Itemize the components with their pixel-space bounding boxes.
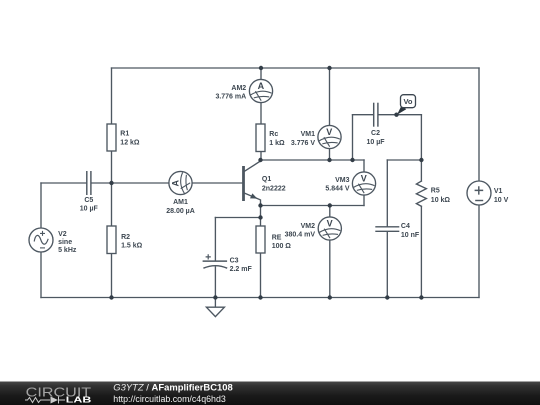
svg-text:C2: C2 [371,130,380,137]
svg-text:5 kHz: 5 kHz [58,247,77,254]
svg-text:1 kΩ: 1 kΩ [269,140,285,147]
svg-text:C5: C5 [84,197,93,204]
svg-text:R5: R5 [431,188,440,195]
svg-text:380.4 mV: 380.4 mV [285,231,316,238]
svg-text:sine: sine [58,239,72,246]
svg-text:R1: R1 [120,131,129,138]
svg-text:2n2222: 2n2222 [262,186,286,193]
svg-text:V: V [326,127,332,137]
svg-text:RE: RE [272,234,282,241]
svg-text:Vo: Vo [403,97,412,106]
svg-text:Q1: Q1 [262,176,271,183]
svg-text:A: A [258,81,265,91]
svg-text:VM3: VM3 [335,177,350,184]
svg-text:2.2 mF: 2.2 mF [230,266,253,273]
svg-text:C3: C3 [230,257,239,264]
svg-text:10 V: 10 V [494,197,509,204]
svg-text:12 kΩ: 12 kΩ [120,140,140,147]
svg-text:28.00 µA: 28.00 µA [166,208,195,215]
svg-text:AM2: AM2 [231,85,246,92]
svg-text:10 nF: 10 nF [401,232,420,239]
svg-text:R2: R2 [121,234,130,241]
svg-text:V: V [327,218,333,228]
svg-text:3.776 mA: 3.776 mA [215,94,246,101]
svg-text:10 µF: 10 µF [80,205,99,212]
svg-text:AM1: AM1 [173,199,188,206]
svg-text:1.5 kΩ: 1.5 kΩ [121,242,143,249]
svg-text:Rc: Rc [269,131,278,138]
svg-text:5.844 V: 5.844 V [325,185,349,192]
svg-text:G3YTZ / AFamplifierBC108: G3YTZ / AFamplifierBC108 [113,382,233,392]
svg-text:100 Ω: 100 Ω [272,243,292,250]
svg-text:10 kΩ: 10 kΩ [431,197,451,204]
svg-text:A: A [170,179,180,186]
svg-text:LAB: LAB [66,394,92,404]
svg-text:VM1: VM1 [301,131,316,138]
svg-text:V: V [361,173,367,183]
svg-text:3.776 V: 3.776 V [291,140,315,147]
svg-text:V1: V1 [494,188,503,195]
svg-text:V2: V2 [58,231,67,238]
svg-text:C4: C4 [401,223,410,230]
svg-text:VM2: VM2 [301,223,316,230]
svg-text:10 µF: 10 µF [366,139,385,146]
svg-text:http://circuitlab.com/c4q6hd3: http://circuitlab.com/c4q6hd3 [113,394,226,404]
